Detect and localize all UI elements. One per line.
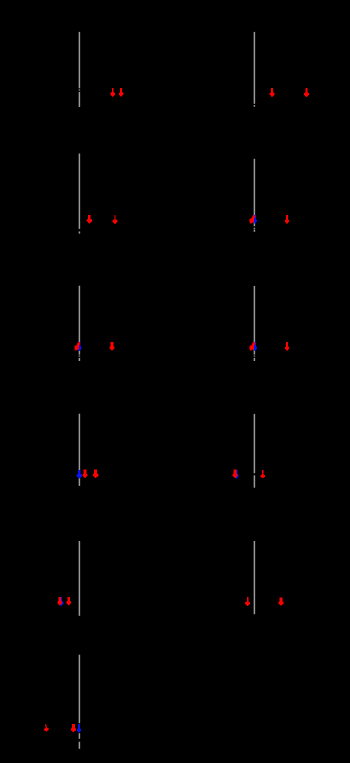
left line segment 4 (78, 286, 80, 355)
red wind arrow L row3 a (rotated SW) (73, 341, 82, 352)
left line segment 2 (78, 92, 80, 107)
left line segment 6 (78, 541, 80, 616)
red wind arrow L row1 b (119, 88, 123, 97)
left line dash 3 (78, 358, 80, 361)
red wind arrow L row5 b (66, 597, 71, 606)
red wind arrow R row1 a (270, 88, 275, 97)
red wind arrow R row2 b (285, 215, 289, 224)
blue gust arrow L row3 (77, 342, 81, 351)
red wind arrow L row4 b (93, 470, 99, 479)
right line segment 4 (253, 414, 255, 473)
left line segment 7 (78, 655, 80, 724)
red wind arrow R row2 a (rotated SW) (248, 214, 257, 225)
left line dot 1 (78, 89, 80, 90)
blue gust arrow R row4 (235, 470, 239, 479)
red wind arrow R row4 a (233, 470, 238, 479)
red wind arrow L row1 a (110, 88, 115, 97)
red wind arrow L row2 b (113, 215, 118, 224)
left line segment 1 (top) (78, 32, 80, 88)
red wind arrow L row6 bold (71, 724, 76, 732)
right line segment 2 (253, 159, 255, 226)
blue gust arrow L row6 (77, 724, 81, 733)
right line segment 1 (top) (253, 32, 255, 104)
right line segment 5 (253, 541, 255, 614)
blue gust arrow L row5 (59, 597, 64, 606)
red wind arrow L row2 a (87, 215, 92, 224)
red wind arrow R row5 b (278, 598, 283, 606)
left line dash 5 (78, 742, 80, 749)
right line dot 1 (253, 105, 255, 107)
blue gust arrow R row2 (253, 215, 257, 224)
right line dash 3 (253, 358, 255, 361)
red wind arrow L row3 b (110, 342, 115, 351)
red wind arrow R row1 b (304, 88, 309, 97)
left line dash 2 (78, 232, 80, 234)
red wind arrow R row3 b (285, 342, 289, 351)
red wind arrow R row4 b (260, 470, 265, 478)
right line segment 4b (253, 475, 255, 487)
blue gust arrow L row4 (77, 470, 83, 479)
blue gust arrow R row3 (253, 342, 257, 351)
right line dash 2 (253, 230, 255, 232)
right line segment 3 (253, 286, 255, 355)
right line dot 2 (253, 228, 255, 229)
left line dash 4 (78, 733, 80, 739)
left line dot 3 (78, 355, 80, 356)
left line segment 5 (78, 414, 80, 486)
red wind arrow L row5 a (57, 597, 62, 606)
left line segment 3 (78, 154, 80, 229)
red wind arrow R row3 a (rotated SW) (248, 341, 257, 352)
red wind arrow L row4 a (83, 470, 88, 479)
red wind arrow L row6 small (rotated SE) (43, 724, 49, 732)
red wind arrow R row5 a (245, 597, 250, 606)
right line dot 3 (253, 356, 255, 357)
